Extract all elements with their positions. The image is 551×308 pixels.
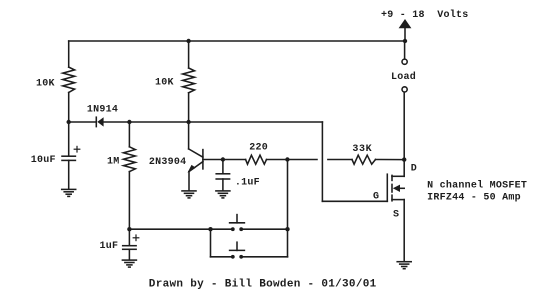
resistor R5 33K	[352, 155, 376, 164]
switch S2 push button bottom	[230, 242, 245, 258]
resistor R2 10K right	[183, 68, 195, 93]
resistor R3 1M	[124, 147, 136, 172]
wire left rail down	[68, 41, 70, 67]
wire gate drop vertical	[321, 122, 323, 201]
capacitor C1 10uF	[62, 122, 80, 189]
wire 33K to drain node	[376, 159, 405, 161]
svg-text:1N914: 1N914	[87, 105, 118, 116]
junction node base cap	[221, 157, 225, 161]
svg-text:.1uF: .1uF	[235, 177, 260, 188]
switch S1 push button top	[230, 215, 245, 232]
wire switch bottom left	[211, 256, 232, 258]
wire gate horizontal	[322, 200, 387, 202]
svg-text:33K: 33K	[352, 144, 372, 155]
junction node 1uF switch row	[127, 227, 131, 231]
resistor R4 220	[246, 155, 267, 164]
svg-text:S: S	[393, 209, 399, 220]
ground 10uF cap	[62, 189, 76, 196]
transistor Q1 2N3904	[188, 149, 203, 191]
diode D1 1N914	[96, 117, 103, 126]
power symbol +9-18 Volts arrow	[399, 19, 412, 41]
wire switch row left	[129, 228, 210, 230]
wire switch top right	[243, 228, 288, 230]
ground mosfet source	[397, 262, 411, 269]
junction node drain	[402, 157, 406, 161]
junction node 1M top	[127, 120, 131, 124]
wire diode row right segment	[104, 121, 323, 123]
wire diode row left segment	[69, 121, 96, 123]
wire base	[203, 159, 223, 161]
wire 10K left to diode row	[68, 93, 70, 123]
junction node switch column top	[285, 157, 289, 161]
terminal Load bottom	[402, 87, 407, 92]
svg-text:1M: 1M	[107, 156, 120, 167]
wire base node to 220	[223, 159, 246, 161]
wire switch column vertical	[287, 160, 289, 257]
wire 1M top drop	[128, 122, 130, 147]
mosfet U1 IRFZ44	[387, 160, 404, 262]
wire 1M to switch row	[128, 172, 130, 230]
svg-text:Load: Load	[391, 71, 416, 83]
svg-text:2N3904: 2N3904	[149, 157, 187, 168]
wire 10K right to diode row	[188, 93, 190, 122]
capacitor C2 .1uF	[216, 160, 229, 191]
wire 10K right top	[188, 41, 190, 68]
wire to crossing gap	[287, 159, 317, 161]
wire 220 to switch node	[267, 159, 288, 161]
svg-text:IRFZ44 - 50 Amp: IRFZ44 - 50 Amp	[427, 192, 521, 203]
terminal Load top	[402, 59, 407, 64]
junction node collector column	[186, 120, 190, 124]
wire switch bottom right	[243, 256, 288, 258]
wire collector drop	[188, 122, 190, 149]
junction node switch right	[285, 227, 289, 231]
resistor R1 10K left	[63, 67, 75, 92]
svg-text:N channel MOSFET: N channel MOSFET	[427, 179, 527, 191]
svg-text:10uF: 10uF	[31, 155, 56, 166]
ground 1uF cap	[122, 260, 136, 267]
svg-text:Drawn by - Bill Bowden - 01/30: Drawn by - Bill Bowden - 01/30/01	[149, 278, 377, 290]
wire load to drain node	[403, 92, 405, 159]
svg-text:1uF: 1uF	[100, 241, 119, 252]
svg-text:D: D	[411, 164, 417, 175]
svg-text:220: 220	[249, 143, 268, 154]
junction node diode row left	[67, 120, 71, 124]
wire switch top left lead	[211, 228, 232, 230]
junction node rail middle column	[186, 39, 190, 43]
ground emitter	[182, 191, 196, 198]
wire switch left drop	[210, 229, 212, 257]
junction node switch left	[208, 227, 212, 231]
svg-text:G: G	[373, 192, 379, 203]
junction node power rail	[403, 39, 407, 43]
svg-text:10K: 10K	[155, 78, 174, 89]
wire 33K row after gap	[328, 159, 352, 161]
wire top rail	[69, 40, 405, 42]
wire power to load terminal	[404, 41, 406, 59]
svg-text:10K: 10K	[36, 79, 55, 90]
svg-text:+9 - 18 Volts: +9 - 18 Volts	[381, 9, 469, 21]
ground .1uF cap	[216, 191, 230, 198]
capacitor C3 1uF	[123, 229, 139, 259]
